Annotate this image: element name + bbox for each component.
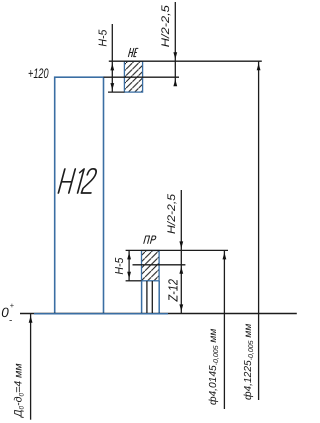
svg-text:Д0-д0=4 мм: Д0-д0=4 мм <box>12 363 25 418</box>
wire PR bottom tick <box>126 280 142 282</box>
arrow up at PR mid line from below <box>179 267 183 274</box>
wire PR top line <box>126 249 228 251</box>
label HE <box>128 48 137 56</box>
arrow up at top of f4,0145 line <box>223 252 227 259</box>
gauge zone HE rectangle hatched <box>124 61 142 92</box>
svg-text:Н-5: Н-5 <box>97 29 109 47</box>
tolerance zone H12 rectangle <box>55 77 104 314</box>
wire top line of HE zone <box>109 60 262 62</box>
wear zone vertical fill below PR <box>141 281 143 314</box>
arrow down H-5 top <box>110 83 114 90</box>
arrow up at zero line D0 <box>29 316 33 323</box>
svg-text:+: + <box>10 301 15 310</box>
arrow down at HE top from above <box>173 52 177 59</box>
svg-text:ф4,0145-0,005 мм: ф4,0145-0,005 мм <box>208 329 220 405</box>
svg-text:ф4,1225-0,005 мм: ф4,1225-0,005 мм <box>243 324 255 400</box>
dimension line H/2-2,5 top <box>174 2 176 86</box>
zero line blue segment <box>34 313 168 315</box>
arrow down at PR top from above <box>179 241 183 248</box>
label PR <box>144 236 156 243</box>
svg-text:+120: +120 <box>28 66 49 81</box>
arrow up at +120 line from below <box>173 79 177 86</box>
dimension line H/2-2,5 mid and Z-12 <box>180 190 182 313</box>
arrow up H-5 top <box>110 63 114 70</box>
dimension line f4,0145 <box>223 250 225 409</box>
svg-text:Н/2-2,5: Н/2-2,5 <box>160 4 172 47</box>
wire +120 level line <box>104 76 180 78</box>
wire bottom tick of HE zone <box>108 91 125 93</box>
dimension line f4,1225 (long right vertical) <box>258 61 260 400</box>
dimension line H-5 PR <box>128 250 130 280</box>
svg-text:Н-5: Н-5 <box>114 257 126 275</box>
dimension line D0 <box>30 314 32 420</box>
label H12 <box>58 169 97 193</box>
svg-text:-: - <box>9 315 13 326</box>
arrow down at zero line Z-12 <box>179 304 183 311</box>
wire PR middle line <box>133 264 186 266</box>
zero line <box>20 313 297 315</box>
svg-text:Z-12: Z-12 <box>166 278 181 302</box>
svg-text:Н/2-2,5: Н/2-2,5 <box>166 193 178 234</box>
gauge zone PR rectangle hatched <box>142 251 160 281</box>
arrow up at top of f4,1225 line <box>257 63 261 70</box>
arrow up H-5 PR <box>127 252 131 259</box>
dimension line H-5 top <box>111 24 113 92</box>
arrow down H-5 PR <box>127 272 131 279</box>
